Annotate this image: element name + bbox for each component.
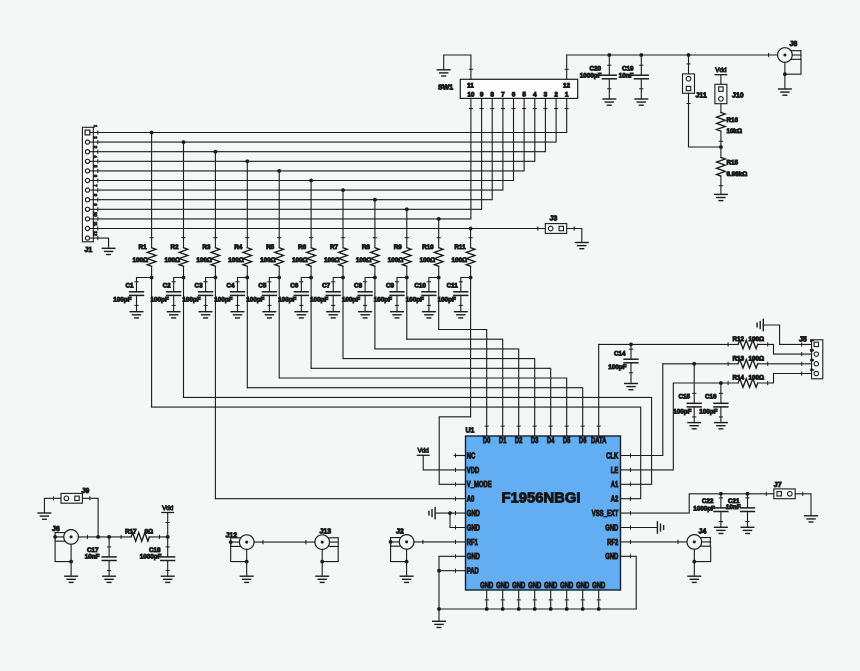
ground at SW1 pin 11 xyxy=(437,70,450,76)
junction J9 node xyxy=(96,535,100,539)
ground at C20 xyxy=(603,99,616,105)
svg-text:J7: J7 xyxy=(774,482,782,489)
junction R3/C3 xyxy=(214,276,218,280)
resistor R5 xyxy=(275,171,284,378)
wire R3 to A0 xyxy=(215,498,465,500)
junction row 10 / R10 xyxy=(437,217,441,221)
jumper J3 xyxy=(545,224,566,234)
svg-text:C1: C1 xyxy=(125,282,134,289)
svg-text:R13: R13 xyxy=(733,355,745,362)
ground at R15 xyxy=(715,194,728,200)
label C18 1000pF xyxy=(140,547,162,561)
svg-text:R8: R8 xyxy=(362,244,371,251)
SW1 pin ticks xyxy=(469,69,568,108)
svg-text:100Ω: 100Ω xyxy=(228,257,244,264)
svg-text:100pF: 100pF xyxy=(438,297,456,304)
jumper J11 xyxy=(683,74,695,93)
label J10 xyxy=(732,93,744,100)
label R9 100 xyxy=(388,244,404,264)
connector J12 xyxy=(231,535,254,550)
svg-text:3: 3 xyxy=(544,92,548,99)
svg-text:R7: R7 xyxy=(330,244,339,251)
svg-text:100pF: 100pF xyxy=(150,297,168,304)
label J2 xyxy=(396,529,404,536)
capacitor C7 xyxy=(326,278,343,312)
label J6 xyxy=(52,526,60,533)
svg-text:A1: A1 xyxy=(611,480,619,489)
resistor R17 xyxy=(131,533,149,542)
capacitor C5 xyxy=(263,278,280,312)
svg-text:100pF: 100pF xyxy=(113,297,131,304)
resistor R14 xyxy=(738,379,758,388)
svg-text:C16: C16 xyxy=(705,394,717,401)
svg-text:100pF: 100pF xyxy=(214,297,232,304)
svg-text:GND: GND xyxy=(512,581,525,590)
junction R8/C8 xyxy=(373,276,377,280)
svg-text:0Ω: 0Ω xyxy=(145,528,154,535)
wire R8 to D2 xyxy=(375,349,519,436)
capacitor pin ticks xyxy=(108,65,750,570)
wire J1 pin 2 row to SW1 pin 2 xyxy=(90,98,556,142)
svg-text:C15: C15 xyxy=(678,394,690,401)
ground at C6 xyxy=(295,312,308,318)
junction row 6 / R6 xyxy=(309,179,313,183)
ground at J6 xyxy=(65,576,78,582)
wire R4 to D6 xyxy=(247,388,582,436)
wire J9 to ground xyxy=(44,498,61,513)
capacitor C6 xyxy=(294,278,311,312)
wire DATA riser xyxy=(598,344,600,436)
svg-text:GND: GND xyxy=(528,581,541,590)
wire VSS_EXT to J7 xyxy=(621,494,774,513)
junction top net C19 xyxy=(639,53,643,57)
ground at C3 xyxy=(199,312,212,318)
wire J6 center to R17 xyxy=(55,536,131,538)
svg-text:SW1: SW1 xyxy=(438,84,453,91)
connector J2 xyxy=(391,535,414,550)
wire J1 pin 10 row to SW1 pin 10 xyxy=(90,98,471,218)
label C4 100pF xyxy=(214,282,235,303)
svg-text:R1: R1 xyxy=(139,244,148,251)
ground at C21 xyxy=(741,527,754,533)
capacitor C21 xyxy=(741,494,755,528)
wire J1 pin 3 row to SW1 pin 3 xyxy=(90,98,545,151)
junction R5/C5 xyxy=(277,276,281,280)
wire J12 to J13 xyxy=(231,541,339,543)
label J7 xyxy=(774,482,782,489)
svg-text:GND: GND xyxy=(544,581,557,590)
wire RF2 to J4 xyxy=(621,541,711,543)
connector J5 xyxy=(812,340,823,379)
svg-text:J2: J2 xyxy=(396,529,404,536)
ground at C22 xyxy=(715,527,728,533)
wire SW1 pin 12 riser xyxy=(566,55,568,79)
wire ground bus under U1 xyxy=(437,590,636,611)
wire J12 shield to ground xyxy=(229,540,249,576)
svg-text:J11: J11 xyxy=(696,93,707,100)
wire J2 shield to ground xyxy=(389,540,409,576)
wire U1 right GND to bus xyxy=(621,556,637,609)
resistor pin ticks xyxy=(121,141,768,538)
svg-text:GND: GND xyxy=(605,552,618,561)
junction VSS net C21 xyxy=(746,492,750,496)
wire R6 to D4 xyxy=(311,368,551,436)
capacitor C1 xyxy=(130,278,152,312)
ground at C16 xyxy=(715,423,728,429)
svg-text:R5: R5 xyxy=(266,244,275,251)
capacitor C14 xyxy=(624,344,638,383)
junction VSS net C22 xyxy=(719,492,723,496)
svg-text:C2: C2 xyxy=(163,282,172,289)
ground left of U1 xyxy=(429,508,435,519)
wire J4 shield to ground xyxy=(692,546,710,576)
svg-text:100Ω: 100Ω xyxy=(356,257,372,264)
wire J7 to ground xyxy=(795,494,811,516)
label J4 xyxy=(699,529,707,536)
label J11 xyxy=(696,93,707,100)
wire U1 GND2 pin xyxy=(450,513,466,527)
ground at J4 xyxy=(688,576,701,582)
svg-text:8: 8 xyxy=(490,92,494,99)
svg-text:100pF: 100pF xyxy=(342,297,360,304)
svg-text:100Ω: 100Ω xyxy=(133,257,149,264)
label C15 100pF xyxy=(673,394,691,416)
wire J3 to ground xyxy=(567,229,582,243)
svg-text:LE: LE xyxy=(611,466,619,475)
svg-text:R14: R14 xyxy=(733,375,745,382)
label R7 100 xyxy=(324,244,340,264)
junction R4/C4 xyxy=(245,276,249,280)
ground at C11 xyxy=(455,312,468,318)
label C16 100pF xyxy=(699,394,717,416)
svg-text:R12: R12 xyxy=(733,336,745,343)
ground at J5 pin1 xyxy=(757,319,763,330)
label C14 100pF xyxy=(608,350,626,371)
svg-text:100pF: 100pF xyxy=(310,297,328,304)
svg-text:C5: C5 xyxy=(258,282,267,289)
ground right of U1 xyxy=(657,522,663,533)
label R12 100 xyxy=(733,336,765,343)
svg-text:100Ω: 100Ω xyxy=(196,257,212,264)
wire U1 GND3/PAD to bus xyxy=(437,556,465,609)
svg-text:4: 4 xyxy=(533,92,537,99)
svg-text:GND: GND xyxy=(467,524,480,533)
svg-text:100Ω: 100Ω xyxy=(292,257,308,264)
jumper J9 xyxy=(61,493,82,503)
resistor R4 xyxy=(243,161,252,387)
label C22 1000pF xyxy=(693,498,715,512)
label J13 xyxy=(320,529,332,536)
label R6 100 xyxy=(292,244,308,264)
wire R10 to D0 xyxy=(439,330,487,437)
ground at C19 xyxy=(635,99,648,105)
label C17 10nF xyxy=(85,547,100,561)
svg-text:C14: C14 xyxy=(614,350,626,357)
label C8 100pF xyxy=(342,282,363,303)
junction R9/C9 xyxy=(405,276,409,280)
wire J13 shield to ground xyxy=(320,546,338,576)
svg-text:100pF: 100pF xyxy=(699,409,717,416)
wire J11 to R15/R16 node xyxy=(689,93,721,147)
svg-text:R10: R10 xyxy=(422,244,434,251)
svg-text:6: 6 xyxy=(512,92,516,99)
svg-text:10kΩ: 10kΩ xyxy=(727,128,743,135)
label J8 xyxy=(790,41,798,48)
junction C17 node xyxy=(107,535,111,539)
jumper J7 xyxy=(774,489,795,499)
svg-text:10nF: 10nF xyxy=(619,72,634,79)
svg-text:R3: R3 xyxy=(202,244,211,251)
connector J1 xyxy=(82,127,93,242)
svg-text:100pF: 100pF xyxy=(278,297,296,304)
svg-text:Vdd: Vdd xyxy=(162,505,174,512)
label C3 100pF xyxy=(182,282,203,303)
resistor R9 xyxy=(403,209,412,339)
label J3 xyxy=(550,216,558,223)
wire J1 pin 11 row (V_MODE net) to J3 xyxy=(90,228,545,230)
svg-text:J5: J5 xyxy=(799,336,807,343)
svg-text:C11: C11 xyxy=(447,282,459,289)
resistor R11 xyxy=(466,229,475,417)
junction row 1 / R1 xyxy=(150,131,154,135)
label R4 100 xyxy=(228,244,244,264)
label R16 10k xyxy=(727,117,743,135)
power Vdd at J10 xyxy=(715,67,727,84)
svg-text:R4: R4 xyxy=(234,244,243,251)
label R2 100 xyxy=(164,244,180,264)
svg-text:VDD: VDD xyxy=(467,466,479,475)
svg-text:J9: J9 xyxy=(82,488,90,495)
ground at C8 xyxy=(359,312,372,318)
svg-text:100pF: 100pF xyxy=(182,297,200,304)
junction top net J11 xyxy=(687,53,691,57)
label R5 100 xyxy=(260,244,276,264)
junction C18/Vdd node xyxy=(166,535,170,539)
svg-text:C6: C6 xyxy=(290,282,299,289)
svg-text:D6: D6 xyxy=(579,436,587,445)
svg-text:GND: GND xyxy=(480,581,493,590)
svg-text:2: 2 xyxy=(554,92,558,99)
wire J1 pin 7 row to SW1 pin 7 xyxy=(90,98,503,190)
jumper pin ticks xyxy=(54,64,803,523)
svg-text:D1: D1 xyxy=(499,436,507,445)
svg-text:10nF: 10nF xyxy=(726,504,741,511)
J1 pin numbers 1-12 xyxy=(93,125,98,236)
svg-text:C7: C7 xyxy=(322,282,331,289)
junction row 4 / R4 xyxy=(245,159,249,163)
svg-text:GND: GND xyxy=(467,552,480,561)
resistor R16 xyxy=(717,104,726,158)
ground at J8 xyxy=(779,89,792,95)
svg-text:C4: C4 xyxy=(226,282,235,289)
svg-text:1000pF: 1000pF xyxy=(580,72,602,79)
svg-text:100pF: 100pF xyxy=(406,297,424,304)
ground at C5 xyxy=(263,312,276,318)
svg-text:GND: GND xyxy=(467,509,480,518)
wire R1 to A2 xyxy=(152,407,641,499)
resistor R8 xyxy=(371,200,380,349)
wire R11 to V_MODE xyxy=(439,417,470,485)
label J12 xyxy=(226,533,238,540)
wire U1 GND pin to left ground xyxy=(435,511,465,515)
svg-text:100Ω: 100Ω xyxy=(749,336,765,343)
junction R10/C10 xyxy=(437,276,441,280)
J5 pin numbers xyxy=(810,339,815,371)
label R14 100 xyxy=(733,375,765,382)
svg-text:100Ω: 100Ω xyxy=(260,257,276,264)
label R13 100 xyxy=(733,355,765,362)
svg-text:J12: J12 xyxy=(226,533,238,540)
svg-text:J8: J8 xyxy=(790,41,798,48)
label C10 100pF xyxy=(406,282,427,303)
resistor R1 xyxy=(147,133,156,408)
label R17 0 xyxy=(125,528,153,535)
ground at J1 pin 12 xyxy=(102,248,115,254)
svg-text:J1: J1 xyxy=(85,247,93,254)
capacitor C22 xyxy=(714,494,728,528)
svg-text:D0: D0 xyxy=(483,436,491,445)
wire J1 pin 4 row to SW1 pin 4 xyxy=(90,98,535,161)
svg-text:C10: C10 xyxy=(414,282,426,289)
BNC pin ticks xyxy=(87,53,768,543)
label R3 100 xyxy=(196,244,212,264)
ground at J12 xyxy=(240,576,253,582)
U1 pin ticks xyxy=(456,426,631,600)
wire J1 pin 9 row to SW1 pin 9 xyxy=(90,98,482,209)
junction C14 xyxy=(629,343,633,347)
capacitor C8 xyxy=(358,278,375,312)
wire J1 pin 1 row to SW1 pin 1 xyxy=(90,98,567,132)
svg-text:A0: A0 xyxy=(467,495,475,504)
capacitor C20 xyxy=(602,55,616,99)
svg-text:Vdd: Vdd xyxy=(418,448,430,455)
op-amp U1 F1956NBGI (attenuator IC) xyxy=(466,436,621,590)
wire top net SW1.12 to J8 xyxy=(567,54,801,56)
wire J1 pin 6 row to SW1 pin 6 xyxy=(90,98,514,180)
wire CLK row to R13 xyxy=(663,363,738,365)
svg-text:D2: D2 xyxy=(515,436,523,445)
label R10 100 xyxy=(420,244,436,264)
junction R11/C11 xyxy=(469,276,473,280)
capacitor C18 xyxy=(161,537,175,576)
junction row 8 / R8 xyxy=(373,198,377,202)
label J5 xyxy=(799,336,807,343)
label C1 100pF xyxy=(113,282,134,303)
svg-text:100pF: 100pF xyxy=(673,409,691,416)
ground at J2 xyxy=(400,576,413,582)
svg-text:GND: GND xyxy=(576,581,589,590)
svg-text:F1956NBGI: F1956NBGI xyxy=(502,491,581,507)
power Vdd at C18 xyxy=(162,505,174,537)
svg-text:J3: J3 xyxy=(550,216,558,223)
capacitor C11 xyxy=(454,278,471,312)
junction R1/C1 xyxy=(150,276,154,280)
resistor R6 xyxy=(307,181,316,369)
svg-text:R11: R11 xyxy=(454,244,466,251)
wire RF1 to J2 xyxy=(391,541,466,543)
ground at J3 xyxy=(576,243,589,249)
capacitor C10 xyxy=(422,278,439,312)
svg-text:100pF: 100pF xyxy=(246,297,264,304)
junction row 2 / R2 xyxy=(182,140,186,144)
svg-text:100Ω: 100Ω xyxy=(164,257,180,264)
svg-text:J10: J10 xyxy=(732,93,744,100)
ground at C15 xyxy=(688,423,701,429)
junction row 3 / R3 xyxy=(214,150,218,154)
J5 pin ticks xyxy=(801,343,803,375)
svg-text:J13: J13 xyxy=(320,529,332,536)
svg-text:D4: D4 xyxy=(547,436,555,445)
svg-text:11: 11 xyxy=(93,222,98,227)
svg-text:100Ω: 100Ω xyxy=(749,375,765,382)
junction R7/C7 xyxy=(341,276,345,280)
junction top net C20 xyxy=(607,53,611,57)
junction row 9 / R9 xyxy=(405,207,409,211)
svg-text:1000pF: 1000pF xyxy=(693,505,715,512)
wire top net to J11 xyxy=(688,55,690,74)
svg-text:100Ω: 100Ω xyxy=(388,257,404,264)
capacitor C4 xyxy=(231,278,248,312)
connector J8 xyxy=(778,48,801,63)
svg-text:GND: GND xyxy=(560,581,573,590)
wire SW1 pin 11 to ground xyxy=(444,55,471,79)
svg-text:R9: R9 xyxy=(394,244,403,251)
svg-text:R15: R15 xyxy=(727,160,739,167)
svg-text:PAD: PAD xyxy=(467,567,479,576)
wire R7 to D3 xyxy=(343,359,535,436)
ground at C9 xyxy=(391,312,404,318)
svg-text:100pF: 100pF xyxy=(374,297,392,304)
svg-text:10: 10 xyxy=(93,212,98,217)
svg-text:NC: NC xyxy=(467,452,476,461)
ground at C18 xyxy=(161,576,174,582)
wire J8 shield to ground xyxy=(783,59,801,89)
svg-text:R6: R6 xyxy=(298,244,307,251)
junction row 11 / R11 xyxy=(469,227,473,231)
svg-text:5: 5 xyxy=(522,92,526,99)
junction C15 xyxy=(692,362,696,366)
resistor R12 xyxy=(738,340,758,349)
wire NC stub xyxy=(454,455,465,457)
wire DATA row to R12 xyxy=(599,343,738,345)
svg-text:DATA: DATA xyxy=(591,436,606,445)
resistor R13 xyxy=(738,360,758,369)
J1 pin ticks xyxy=(97,131,99,240)
connector J6 xyxy=(55,530,78,545)
svg-text:7: 7 xyxy=(501,92,505,99)
wire J1 pin 8 row to SW1 pin 8 xyxy=(90,98,492,199)
svg-text:C3: C3 xyxy=(195,282,204,289)
svg-text:12: 12 xyxy=(93,231,98,236)
wire R17 to Vdd node xyxy=(149,536,167,538)
wire J9 to J6 net xyxy=(82,498,98,537)
ground at U1 bus xyxy=(433,609,446,628)
svg-text:10nF: 10nF xyxy=(85,554,100,561)
resistor R15 xyxy=(717,157,726,194)
svg-text:1000pF: 1000pF xyxy=(140,554,162,561)
svg-text:100Ω: 100Ω xyxy=(749,355,765,362)
wire R12 to J5 pin2 xyxy=(758,344,812,354)
svg-text:V_MODE: V_MODE xyxy=(467,480,492,489)
capacitor C3 xyxy=(199,278,216,312)
label J9 xyxy=(82,488,90,495)
label R1 100 xyxy=(133,244,149,264)
capacitor C17 xyxy=(102,537,116,576)
junction C16 xyxy=(719,381,723,385)
wire R13 to J5 pin3 xyxy=(758,363,812,365)
svg-text:6.98kΩ: 6.98kΩ xyxy=(727,171,748,178)
capacitor C15 xyxy=(687,364,701,423)
